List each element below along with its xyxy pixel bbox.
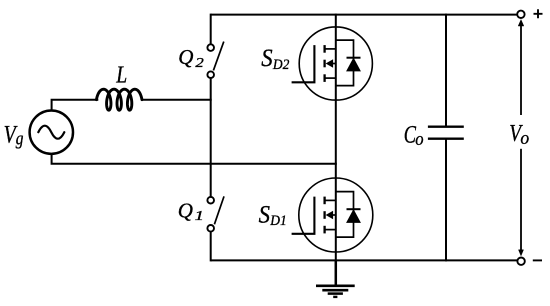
svg-text:o: o <box>520 128 529 149</box>
MOSFET S_D2 circle <box>299 27 372 100</box>
svg-text:S: S <box>259 200 270 229</box>
MOSFET S_D2 body diode triangle <box>347 59 360 71</box>
switch Q1 <box>207 196 224 231</box>
MOSFET S_D1 body arrow <box>326 211 334 219</box>
MOSFET S_D2 body arrow <box>326 59 334 67</box>
svg-text:S: S <box>261 44 272 73</box>
MOSFET S_D2 channel dashes <box>323 45 325 82</box>
switch Q2 <box>207 42 223 78</box>
MOSFET S_D2 drain and source leads <box>325 49 336 78</box>
MOSFET S_D2 gate <box>292 45 315 82</box>
ground <box>316 286 355 297</box>
MOSFET S_D1 body diode triangle <box>347 210 360 222</box>
MOSFET S_D2 body diode cathode bar <box>347 57 361 59</box>
MOSFET S_D1 gate <box>292 197 315 234</box>
label S_D1 <box>259 200 287 229</box>
svg-text:1: 1 <box>195 207 204 223</box>
output terminal - (bottom right) <box>517 258 524 265</box>
svg-text:D2: D2 <box>272 56 289 73</box>
inductor L <box>96 89 142 110</box>
svg-text:L: L <box>115 60 127 87</box>
MOSFET S_D1 drain and source leads <box>325 200 336 229</box>
wire: bottom rail <box>211 259 518 261</box>
minus sign <box>533 259 542 261</box>
MOSFET S_D1 circle <box>299 178 373 252</box>
label Vg <box>4 120 24 149</box>
label Vo <box>509 119 529 149</box>
label S_D2 <box>261 44 289 73</box>
MOSFET S_D2 drain-source branch to body diode <box>336 40 354 86</box>
label Q1 <box>178 199 204 224</box>
wire: inductor to Q-leg node <box>141 99 211 101</box>
voltage source Vg <box>30 111 73 154</box>
MOSFET S_D1 body diode cathode bar <box>347 208 361 210</box>
label Q2 <box>178 45 204 70</box>
svg-text:Q: Q <box>178 199 193 223</box>
wire: Q-leg vertical bottom (Q1 to rail) <box>210 232 212 262</box>
wire: capacitor branch bottom <box>445 139 447 262</box>
output terminal + (top right) <box>517 11 524 18</box>
wire: Q-leg vertical top (rail to Q2) <box>210 14 212 45</box>
MOSFET S_D1 channel dashes <box>323 197 325 234</box>
label Co <box>404 120 424 150</box>
Vo measurement arrow <box>518 20 524 256</box>
wire: Vg bottom stub and return to MOSFET midpoint <box>52 154 337 164</box>
svg-text:g: g <box>16 128 24 149</box>
wire: capacitor branch top <box>445 14 447 127</box>
capacitor Co plates <box>428 127 464 139</box>
svg-text:2: 2 <box>195 55 204 70</box>
svg-text:D1: D1 <box>269 212 286 229</box>
wire: Vg top stub and to inductor <box>52 100 99 111</box>
svg-text:o: o <box>415 128 424 149</box>
wire: MOSFET leg vertical (top rail through S_D2, midpoint, S_D1, to ground) <box>335 14 337 286</box>
plus sign <box>534 9 543 18</box>
wire: Q-leg vertical middle (Q2 to Q1) <box>210 78 212 197</box>
wire: top rail <box>211 14 518 16</box>
MOSFET S_D1 drain-source branch to body diode <box>336 192 354 238</box>
svg-text:Q: Q <box>178 45 193 69</box>
label L <box>115 60 127 87</box>
ground stub <box>335 260 338 285</box>
